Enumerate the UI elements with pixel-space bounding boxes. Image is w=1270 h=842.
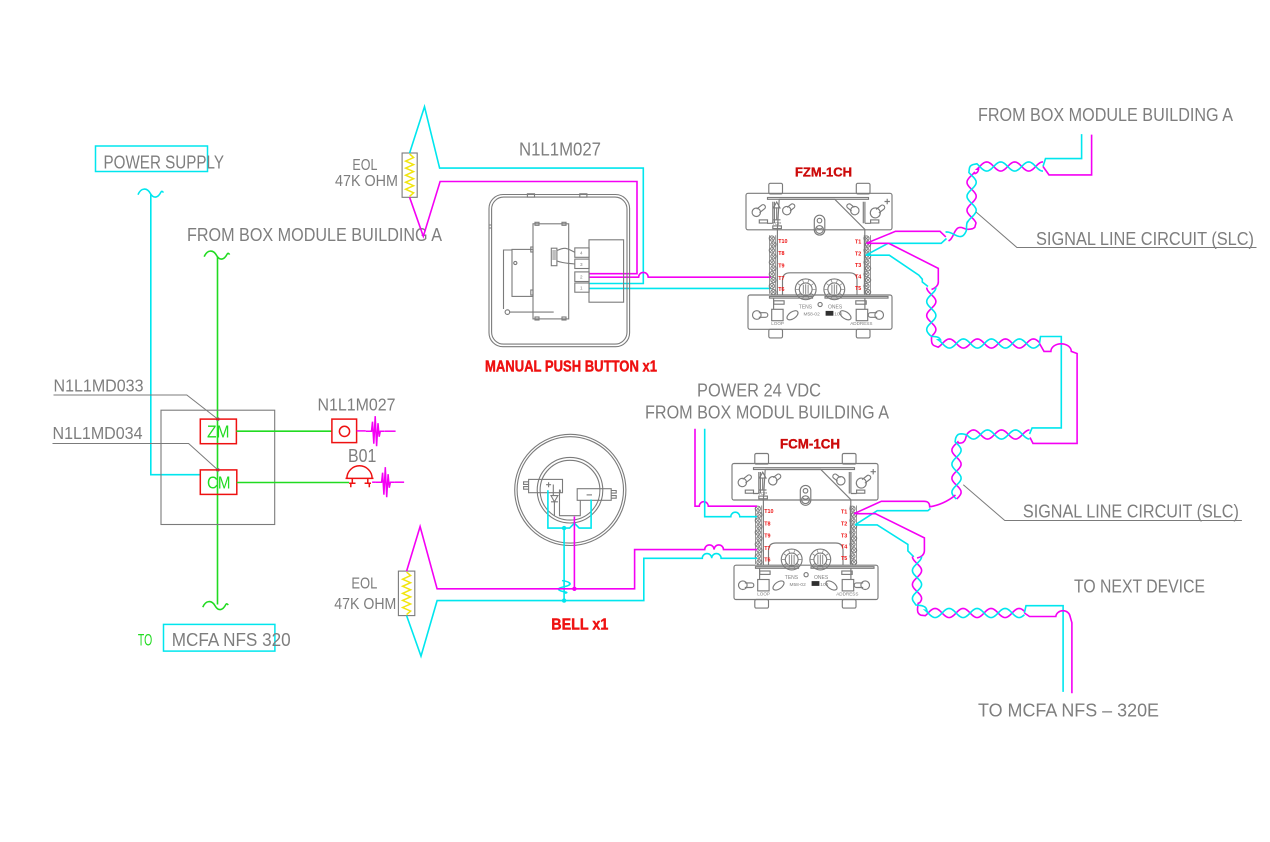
power supply label box bbox=[96, 146, 225, 173]
svg-text:MANUAL PUSH BUTTON x1: MANUAL PUSH BUTTON x1 bbox=[485, 359, 657, 376]
svg-text:POWER 24 VDC: POWER 24 VDC bbox=[697, 381, 821, 401]
funnel into FCM right terminals bbox=[854, 495, 956, 514]
wire cyan 24vdc to FCM T8 bbox=[705, 429, 757, 517]
green break squiggle bottom bbox=[203, 602, 228, 610]
svg-text:CM: CM bbox=[207, 473, 231, 493]
svg-text:TO NEXT DEVICE: TO NEXT DEVICE bbox=[1074, 577, 1205, 597]
power supply break squiggle bbox=[138, 189, 163, 197]
wire green ZM to monitor device bbox=[236, 430, 332, 432]
svg-text:POWER SUPPLY: POWER SUPPLY bbox=[104, 153, 225, 173]
wire magenta bell lead down bbox=[573, 517, 575, 589]
wire magenta monitor stub bbox=[357, 416, 396, 446]
svg-text:FROM BOX MODULE BUILDING A: FROM BOX MODULE BUILDING A bbox=[187, 225, 442, 245]
wire magenta 24vdc to FCM T10 bbox=[695, 429, 757, 506]
wire cyan EOL bottom to FCM T6 bbox=[407, 554, 757, 657]
module FZM-1CH bbox=[746, 183, 892, 338]
svg-text:47K OHM: 47K OHM bbox=[335, 173, 398, 190]
svg-text:47K OHM: 47K OHM bbox=[334, 596, 396, 613]
svg-text:FCM-1CH: FCM-1CH bbox=[780, 437, 840, 452]
resistor EOL 47K top bbox=[402, 153, 417, 197]
svg-text:N1L1M027: N1L1M027 bbox=[519, 140, 601, 160]
label box MCFA NFS 320 bbox=[164, 624, 291, 651]
junction jog cyan bbox=[1030, 337, 1062, 435]
svg-text:FROM BOX MODULE BUILDING A: FROM BOX MODULE BUILDING A bbox=[978, 105, 1233, 125]
wire cyan power supply to CM bbox=[151, 194, 201, 475]
svg-text:4: 4 bbox=[580, 251, 583, 256]
twisted pair FZM T1/T2 to top right (SLC) bbox=[866, 231, 945, 243]
svg-text:N1L1MD033: N1L1MD033 bbox=[54, 376, 144, 396]
svg-text:EOL: EOL bbox=[352, 157, 377, 174]
svg-text:FZM-1CH: FZM-1CH bbox=[795, 165, 852, 180]
green break squiggle top bbox=[204, 251, 229, 259]
leader SLC 1 bbox=[976, 212, 1256, 247]
wire cyan EOL top to push button and FZM T6 bbox=[410, 107, 644, 284]
wire green main vertical bbox=[217, 257, 219, 605]
wire magenta to FROM BOX top right bbox=[1043, 135, 1092, 175]
bell B01 symbol bbox=[346, 466, 374, 488]
junction jog magenta with crossover bbox=[1030, 344, 1077, 444]
wire cyan bell lead down bbox=[563, 528, 565, 601]
svg-text:2: 2 bbox=[580, 275, 583, 280]
module FCM-1CH bbox=[732, 454, 878, 609]
svg-text:EOL: EOL bbox=[351, 576, 377, 593]
svg-text:SIGNAL LINE CIRCUIT (SLC): SIGNAL LINE CIRCUIT (SLC) bbox=[1036, 229, 1254, 249]
svg-text:1: 1 bbox=[580, 286, 583, 291]
twisted pair junction to FCM T1/T2 bbox=[952, 430, 1030, 499]
wire cyan to FROM BOX top right bbox=[1043, 134, 1082, 166]
svg-text:N1L1M027: N1L1M027 bbox=[318, 395, 396, 415]
jog magenta with crossover to MCFA bbox=[1024, 611, 1072, 694]
svg-text:FROM BOX MODUL BUILDING A: FROM BOX MODUL BUILDING A bbox=[645, 403, 889, 423]
bell device bbox=[515, 434, 626, 545]
wire magenta bell stub bbox=[372, 467, 404, 497]
manual push button device bbox=[489, 194, 630, 347]
twisted pair FCM to next device bbox=[855, 514, 924, 558]
svg-text:ZM: ZM bbox=[207, 422, 230, 442]
svg-text:B01: B01 bbox=[348, 446, 376, 466]
power supply unit outline box bbox=[161, 410, 275, 524]
wire magenta EOL bottom to FCM T7 bbox=[407, 527, 757, 589]
wire green CM to bell B01 bbox=[237, 482, 349, 484]
svg-text:3: 3 bbox=[580, 262, 583, 267]
svg-text:BELL x1: BELL x1 bbox=[551, 617, 608, 634]
svg-text:TO MCFA NFS – 320E: TO MCFA NFS – 320E bbox=[978, 701, 1159, 721]
svg-text:TO: TO bbox=[138, 631, 152, 650]
resistor EOL 47K bottom bbox=[398, 571, 414, 616]
module ZM bbox=[200, 419, 236, 444]
svg-text:SIGNAL LINE CIRCUIT (SLC): SIGNAL LINE CIRCUIT (SLC) bbox=[1023, 502, 1239, 522]
twisted pair FZM down to junction bbox=[866, 243, 938, 289]
wire magenta EOL top to push button and FZM T7 bbox=[410, 182, 637, 274]
leader N1L1MD034 bbox=[53, 444, 218, 470]
monitor device symbol bbox=[332, 419, 357, 443]
wire cyan bell U-link bbox=[548, 490, 591, 528]
terminal numbers bbox=[580, 251, 583, 291]
svg-text:N1L1MD034: N1L1MD034 bbox=[53, 423, 143, 443]
leader SLC 2 bbox=[963, 485, 1242, 521]
svg-text:MCFA NFS 320: MCFA NFS 320 bbox=[172, 630, 291, 650]
module CM bbox=[200, 470, 237, 495]
jog cyan to MCFA bbox=[1024, 606, 1063, 692]
leader N1L1MD033 bbox=[54, 395, 218, 419]
